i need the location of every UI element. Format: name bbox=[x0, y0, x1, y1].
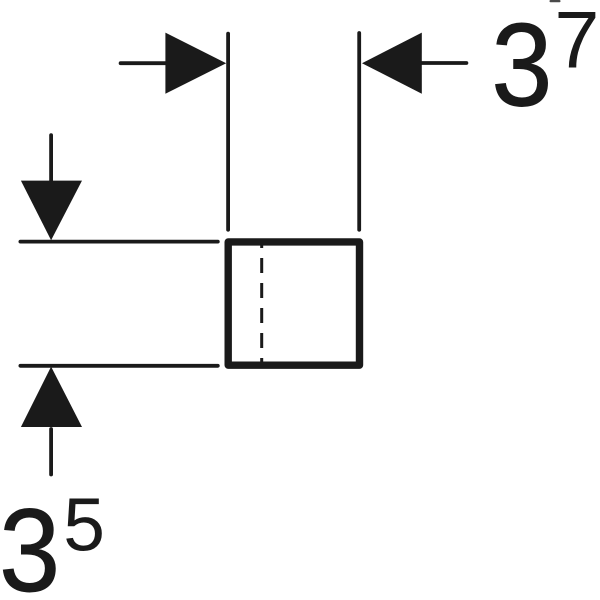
extension line vertical right bbox=[357, 33, 361, 230]
dashed center line bbox=[260, 242, 263, 365]
top dimension right arrowhead bbox=[362, 33, 422, 94]
svg-text:7: 7 bbox=[554, 0, 599, 86]
extension line horizontal top bbox=[20, 240, 217, 244]
left dimension up arrowhead bbox=[21, 367, 82, 427]
top dimension left arrowhead bbox=[165, 33, 226, 94]
left dimension up arrow tail bbox=[49, 429, 53, 475]
left dimension down arrowhead bbox=[21, 181, 82, 241]
extension line horizontal bottom bbox=[20, 364, 217, 368]
left dimension down arrow tail bbox=[49, 135, 53, 185]
svg-text:3: 3 bbox=[491, 0, 552, 131]
top dimension right arrow tail bbox=[421, 61, 466, 65]
svg-text:3: 3 bbox=[0, 485, 60, 600]
svg-text:5: 5 bbox=[63, 483, 105, 567]
extension line vertical left bbox=[226, 34, 230, 230]
top dimension left arrow tail bbox=[121, 61, 170, 65]
square part outline bbox=[228, 242, 359, 365]
top edge artifact bbox=[550, 0, 561, 2]
